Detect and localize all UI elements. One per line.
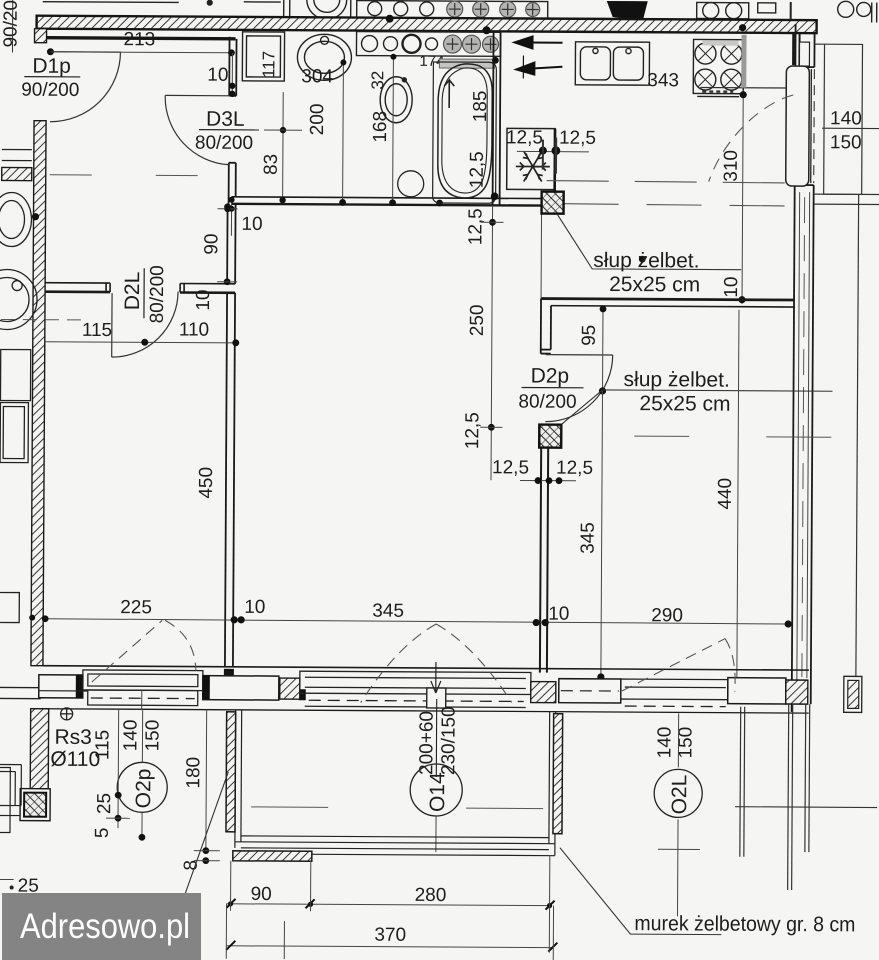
door D2L leaf+arc — [112, 291, 178, 357]
partition wall below C2 — [540, 448, 548, 673]
svg-text:Rs3: Rs3 — [54, 726, 91, 749]
center window band O14 — [300, 671, 531, 707]
svg-text:10: 10 — [721, 276, 742, 297]
top wall hatched band — [37, 16, 817, 33]
svg-text:25: 25 — [94, 793, 115, 814]
svg-text:140: 140 — [120, 719, 141, 751]
bathroom oval sink — [297, 34, 351, 80]
neighbour cooker hood dark blob — [607, 1, 648, 21]
bathtub — [433, 62, 497, 203]
door D2p leaf+arc — [545, 355, 612, 422]
svg-text:140: 140 — [654, 727, 675, 759]
watermark overlay (not rotated) — [2, 893, 201, 960]
svg-text:D1p: D1p — [32, 55, 71, 78]
living room left wall x230 — [225, 204, 236, 667]
left neighbour balcony below — [30, 709, 48, 789]
balcony door frame top — [792, 33, 795, 65]
left pier — [39, 675, 83, 698]
svg-text:10: 10 — [207, 65, 228, 86]
window O2L — [621, 679, 728, 707]
leader 1 to slup label — [557, 215, 741, 270]
hallway centerline dashes — [50, 175, 230, 176]
dim chain x491: 12,5 / 250 / 12,5 — [491, 205, 493, 480]
wall stub x540 — [541, 299, 551, 354]
svg-text:Ø110: Ø110 — [50, 748, 100, 771]
svg-text:310: 310 — [721, 150, 742, 182]
svg-text:345: 345 — [578, 522, 599, 554]
svg-text:12,5: 12,5 — [559, 128, 596, 149]
svg-text:12,5: 12,5 — [467, 151, 488, 188]
right small hatched box — [844, 676, 862, 712]
entry arrows — [514, 36, 562, 78]
toilet — [380, 77, 412, 123]
svg-text:90/200: 90/200 — [0, 0, 21, 48]
hatched pier — [531, 682, 556, 703]
window O2p — [83, 670, 203, 706]
svg-text:185: 185 — [470, 90, 491, 122]
svg-text:304: 304 — [301, 66, 333, 87]
svg-text:168: 168 — [370, 111, 391, 143]
balcony door threshold box — [427, 688, 446, 708]
svg-text:O2p: O2p — [132, 769, 155, 809]
fridge box with snowflake — [507, 128, 555, 189]
svg-text:10: 10 — [193, 289, 214, 310]
kitchen dashed axes — [547, 181, 790, 183]
column C2 hatched — [539, 425, 561, 448]
left diagonal leader — [169, 771, 228, 938]
svg-text:90: 90 — [201, 233, 222, 254]
bathroom bottom wall — [232, 197, 543, 206]
top neighbour fixtures strip — [43, 0, 877, 23]
dashed tilt symbols — [92, 620, 736, 705]
dashed swing arc — [709, 95, 793, 182]
svg-text:12,5: 12,5 — [465, 208, 486, 245]
svg-text:80/200: 80/200 — [147, 265, 168, 323]
svg-text:200: 200 — [307, 104, 328, 136]
svg-text:290: 290 — [651, 605, 683, 626]
svg-text:25x25 cm: 25x25 cm — [609, 273, 700, 297]
svg-text:8: 8 — [181, 860, 202, 871]
stove — [693, 39, 743, 96]
svg-text:450: 450 — [196, 467, 217, 499]
svg-text:Adresowo.pl: Adresowo.pl — [20, 907, 190, 946]
top edge line — [43, 666, 809, 670]
svg-text:150: 150 — [142, 720, 163, 752]
svg-text:117: 117 — [259, 51, 278, 78]
O14 arrow — [431, 662, 441, 693]
bottom dim row y621 — [45, 619, 788, 624]
tub faucet arrow — [444, 80, 454, 108]
D2L corridor wall left piece — [45, 283, 110, 292]
gray shelf over tub head — [439, 59, 494, 68]
svg-text:O14: O14 — [426, 772, 449, 812]
washing machine — [242, 32, 284, 81]
murek leader + label — [559, 848, 721, 935]
svg-text:słup żelbet.: słup żelbet. — [593, 249, 699, 273]
left wall hatched: segment above door D1p — [35, 29, 47, 43]
neighbour bay top right — [811, 44, 879, 677]
svg-text:370: 370 — [374, 925, 406, 946]
svg-text:213: 213 — [123, 29, 155, 50]
svg-text:225: 225 — [120, 597, 152, 618]
svg-text:D3L: D3L — [206, 108, 245, 131]
svg-text:343: 343 — [647, 70, 679, 91]
leader 2 — [556, 390, 602, 429]
svg-text:80/200: 80/200 — [518, 391, 576, 412]
svg-text:10: 10 — [244, 597, 265, 618]
Rs3 labels — [61, 708, 73, 720]
svg-text:90/200: 90/200 — [21, 80, 79, 101]
D2L corridor wall right piece — [180, 284, 235, 293]
svg-text:32: 32 — [368, 71, 387, 90]
balcony door leaf — [786, 66, 810, 186]
dim rows below balcony — [227, 904, 550, 906]
svg-text:O2L: O2L — [668, 775, 691, 815]
balcony centerline dashes — [251, 806, 328, 808]
drain circle — [398, 171, 424, 197]
door D3L leaf+arc — [165, 95, 232, 164]
svg-text:D2p: D2p — [531, 365, 570, 388]
svg-text:90: 90 — [251, 884, 272, 905]
svg-text:12,5: 12,5 — [492, 457, 529, 478]
svg-text:10: 10 — [241, 214, 262, 235]
svg-text:140: 140 — [830, 108, 862, 129]
svg-text:12,5: 12,5 — [556, 458, 593, 479]
column C1 hatched — [542, 192, 564, 214]
svg-text:25x25 cm: 25x25 cm — [639, 392, 730, 416]
neighbour bottom wall to the left — [0, 686, 41, 688]
svg-text:D2L: D2L — [121, 272, 144, 311]
svg-text:słup żelbet.: słup żelbet. — [624, 368, 730, 392]
svg-text:murek żelbetowy gr. 8 cm: murek żelbetowy gr. 8 cm — [634, 912, 855, 936]
top wall y298 — [541, 299, 794, 307]
centerline y435 — [634, 435, 689, 437]
bathroom right wall — [493, 31, 501, 205]
left wall hatched: long segment below door — [31, 121, 46, 666]
black cap at wall junction — [224, 669, 234, 687]
hatched pier right — [786, 680, 808, 704]
svg-text:345: 345 — [372, 601, 404, 622]
door D1p leaf+arc — [50, 52, 120, 122]
svg-text:180: 180 — [183, 757, 204, 789]
bathroom left wall x230 segments — [229, 37, 237, 204]
hallway top wall double line — [47, 38, 236, 39]
svg-text:12,5: 12,5 — [506, 127, 543, 148]
hatched pier — [280, 678, 300, 699]
bathroom counter row with burners — [356, 32, 500, 57]
svg-text:250: 250 — [467, 304, 488, 336]
svg-text:110: 110 — [179, 319, 209, 340]
svg-text:83: 83 — [261, 154, 282, 175]
pier box — [559, 679, 621, 703]
svg-text:80/200: 80/200 — [195, 133, 253, 154]
kitchen sink — [575, 42, 649, 85]
balcony side walls hatched — [226, 712, 236, 832]
svg-text:440: 440 — [715, 478, 736, 510]
svg-text:10: 10 — [548, 604, 569, 625]
svg-text:150: 150 — [830, 132, 862, 153]
svg-text:12,5: 12,5 — [462, 412, 483, 449]
O2p circle — [117, 762, 167, 812]
svg-text:95: 95 — [579, 325, 600, 346]
slab outline — [233, 710, 556, 856]
pier box right — [728, 678, 786, 704]
svg-text:5: 5 — [92, 827, 113, 838]
svg-text:280: 280 — [415, 885, 447, 906]
right-lower neighbour lines — [739, 707, 742, 857]
pier box — [203, 676, 279, 700]
svg-text:115: 115 — [82, 320, 112, 341]
